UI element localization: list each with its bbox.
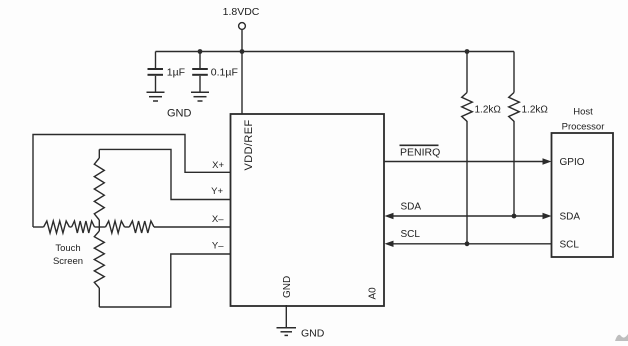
wire SCL: [391, 243, 552, 245]
svg-text:1µF: 1µF: [167, 67, 185, 79]
svg-text:X+: X+: [212, 160, 224, 171]
svg-text:SDA: SDA: [560, 212, 581, 223]
op-amp U1 touch screen controller: [231, 114, 385, 306]
svg-text:GND: GND: [301, 328, 325, 340]
host processor box: [552, 133, 614, 257]
junction C2 on rail: [198, 49, 203, 54]
junction R1 on SCL: [465, 241, 470, 246]
wire VDD to chip: [241, 52, 243, 115]
arrow SDA right: [543, 213, 552, 219]
wire Y+: [99, 149, 230, 199]
touch screen outer loop / X+ wire: [33, 135, 231, 228]
ground symbol chip: [277, 328, 297, 336]
svg-text:A0: A0: [368, 287, 379, 300]
capacitor C2 0.1uF: [192, 52, 208, 92]
arrow PENIRQ into GPIO: [543, 158, 552, 164]
arrow SDA left: [385, 213, 394, 219]
svg-text:0.1µF: 0.1µF: [211, 67, 238, 79]
resistor touch X right a: [106, 221, 125, 233]
svg-text:1.8VDC: 1.8VDC: [223, 6, 260, 18]
capacitor C1 1uF: [148, 52, 164, 92]
junction R1 on rail: [465, 49, 470, 54]
junction VDD on rail: [240, 49, 245, 54]
wire X- to chip: [154, 226, 231, 228]
svg-text:Y+: Y+: [211, 186, 223, 197]
wire Y- bottom: [99, 254, 230, 307]
svg-text:Touch: Touch: [55, 243, 80, 254]
svg-text:Y–: Y–: [212, 241, 224, 252]
svg-text:GPIO: GPIO: [560, 157, 585, 168]
svg-text:Host: Host: [573, 107, 593, 118]
resistor touch Y upper: [98, 149, 100, 158]
svg-text:SDA: SDA: [401, 202, 422, 213]
arrow SCL left: [385, 241, 394, 247]
ground symbol C2: [191, 92, 209, 101]
wire SDA: [391, 215, 545, 217]
svg-text:1.2kΩ: 1.2kΩ: [522, 105, 549, 116]
resistor touch X left a: [44, 221, 70, 233]
wire X- row left joins: [33, 226, 44, 228]
svg-text:GND: GND: [167, 108, 192, 120]
resistor touch X left b: [72, 221, 95, 233]
wire supply to rail: [241, 29, 243, 51]
svg-text:VDD/REF: VDD/REF: [243, 119, 255, 170]
ground symbol C1: [147, 92, 165, 101]
svg-text:SCL: SCL: [560, 240, 580, 251]
resistor touch X right b: [129, 221, 154, 233]
wire power rail: [156, 51, 515, 53]
wire chip GND: [285, 305, 287, 327]
svg-text:PENIRQ: PENIRQ: [400, 146, 440, 158]
resistor touch Y lower: [94, 231, 104, 288]
resistor R1 1.2k: [466, 52, 468, 93]
svg-text:SCL: SCL: [401, 229, 421, 240]
resistor R2 1.2k: [513, 52, 515, 93]
junction R2 on SDA: [512, 214, 517, 219]
svg-text:GND: GND: [282, 276, 293, 298]
svg-text:Processor: Processor: [562, 122, 605, 133]
wire Y chain mid: [98, 220, 100, 231]
wire PENIRQ: [385, 161, 545, 163]
svg-text:Screen: Screen: [53, 256, 83, 267]
svg-text:1.2kΩ: 1.2kΩ: [475, 105, 502, 116]
svg-text:X–: X–: [212, 214, 224, 225]
